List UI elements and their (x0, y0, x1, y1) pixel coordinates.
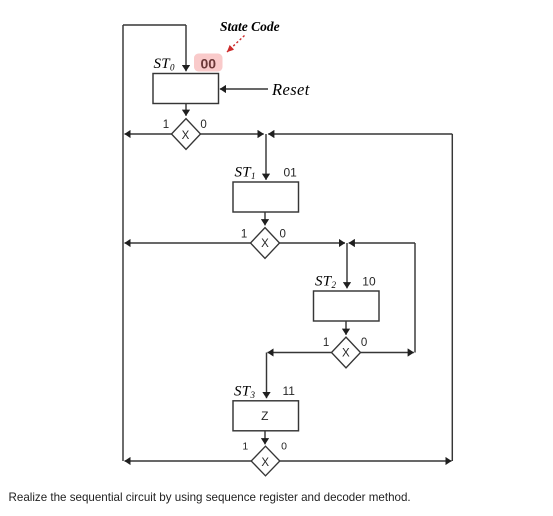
wire: D1 true branch to left trunk (125, 133, 172, 135)
wire: ST0 to decision D1 (185, 104, 187, 116)
svg-text:10: 10 (362, 274, 376, 288)
wire: node J1 down into ST1 (265, 134, 267, 180)
state box ST3 (233, 401, 299, 431)
svg-text:1: 1 (242, 441, 248, 453)
svg-text:X: X (261, 238, 269, 250)
state box ST0 (153, 74, 219, 104)
wire: node J2 down into ST2 (346, 243, 348, 288)
wire: entry into ST0 top with arrow (185, 25, 187, 71)
Reset arrow (220, 88, 268, 90)
svg-text:X: X (342, 348, 350, 360)
wire: D4 true branch to left trunk (125, 460, 252, 462)
svg-text:ST0: ST0 (154, 56, 175, 73)
decision diamond D1 (172, 119, 201, 150)
wire: D2 false branch to node J2 (280, 242, 346, 244)
decision diamond D3 (332, 337, 361, 368)
state code badge 00 (194, 54, 223, 72)
wire: D3 true branch horizontal with arrow at corner (268, 352, 332, 354)
state box ST2 (314, 291, 380, 321)
svg-text:00: 00 (201, 56, 217, 72)
wire: D3 true branch corner down into ST3 (266, 353, 268, 399)
wire: ST2 to decision D3 (345, 321, 347, 335)
svg-text:1: 1 (241, 228, 247, 240)
svg-text:0: 0 (361, 337, 367, 349)
wire: ST2 loop return into node J2 (349, 242, 415, 244)
wire: D1 false branch to node J1 (201, 133, 264, 135)
wire: right trunk return into node J1 (268, 133, 452, 135)
svg-text:1: 1 (323, 337, 329, 349)
state box ST1 (233, 182, 299, 212)
svg-text:Z: Z (261, 409, 268, 423)
wire: ST2 loop vertical (414, 243, 416, 353)
svg-text:0: 0 (200, 119, 206, 131)
decision diamond D4 (251, 446, 280, 476)
svg-text:ST2: ST2 (315, 274, 336, 291)
svg-text:ST3: ST3 (234, 384, 255, 401)
svg-text:X: X (261, 457, 269, 469)
wire: ST3 to decision D4 (264, 431, 266, 445)
svg-text:ST1: ST1 (235, 165, 256, 182)
svg-text:State Code: State Code (220, 19, 280, 34)
wire: ST0 self-loop left vertical (x=123, y 25..461 shared trunk) (122, 25, 124, 461)
wire: right trunk vertical (451, 134, 453, 461)
decision diamond D2 (251, 228, 280, 259)
wire: D4 false branch to right trunk (280, 460, 452, 462)
svg-text:0: 0 (281, 441, 287, 453)
wire: D2 true branch to left trunk (125, 242, 251, 244)
svg-text:X: X (182, 130, 190, 142)
svg-text:11: 11 (283, 384, 296, 398)
wire: ST1 to decision D2 (264, 212, 266, 225)
caption text (9, 491, 411, 504)
svg-text:01: 01 (284, 165, 298, 179)
red dashed callout arrow (227, 36, 245, 53)
svg-text:Reset: Reset (271, 80, 310, 99)
wire: D3 false branch to ST2 loop vertical (361, 352, 414, 354)
wire: top horizontal of ST0 loop (123, 24, 186, 26)
svg-text:0: 0 (279, 228, 285, 240)
svg-text:1: 1 (163, 119, 169, 131)
